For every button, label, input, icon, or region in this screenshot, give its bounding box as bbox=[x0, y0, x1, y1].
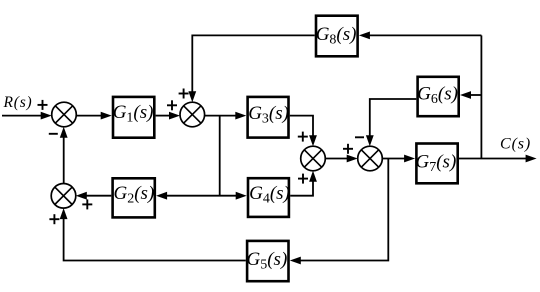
block G8 bbox=[316, 16, 358, 57]
svg-text:C(s): C(s) bbox=[500, 136, 531, 153]
minus sign at S4 top input bbox=[355, 136, 364, 138]
block G7 bbox=[416, 144, 458, 184]
svg-text:G3(s): G3(s) bbox=[248, 103, 289, 127]
block G2 bbox=[113, 178, 155, 217]
block G1 bbox=[113, 97, 155, 138]
svg-text:G4(s): G4(s) bbox=[249, 183, 290, 207]
wire S4 to G7 with branch node bbox=[382, 158, 407, 160]
wire feedback vertical from output node up bbox=[480, 35, 482, 158]
wire G3 output to summer S3 top bbox=[290, 116, 313, 138]
summing junction S4 bbox=[358, 146, 383, 171]
wire G1 to summer S2 bbox=[156, 115, 171, 117]
block G6 bbox=[417, 77, 459, 116]
svg-text:G1(s): G1(s) bbox=[113, 102, 154, 126]
summing junction S5 bbox=[51, 184, 76, 209]
wire branch down to G5 bbox=[298, 159, 389, 261]
wire G5 output to S5 bottom bbox=[64, 217, 246, 261]
plus sign at S1 input bbox=[38, 100, 48, 110]
summing junction S1 bbox=[52, 102, 77, 127]
plus sign at S3 bottom input bbox=[298, 174, 308, 184]
block G3 bbox=[248, 97, 289, 138]
wire branch row to G2 (left) and G4 (right) bbox=[164, 195, 239, 197]
plus sign at S2 top input bbox=[179, 89, 189, 99]
block G5 bbox=[247, 241, 289, 281]
wire S5 output up to S1 lower input bbox=[63, 135, 65, 184]
summing junction S3 bbox=[301, 146, 326, 171]
wire S3 to S4 bbox=[325, 158, 349, 160]
wire G7 to C(s) output bbox=[459, 158, 528, 160]
minus sign at S1 lower input bbox=[49, 133, 58, 135]
plus sign at S2 left input bbox=[167, 100, 177, 110]
svg-text:R(s): R(s) bbox=[3, 94, 33, 111]
plus sign between S3 and S4 bbox=[343, 144, 353, 154]
wire G8 output to S2 top bbox=[192, 35, 314, 94]
wire to G6 input bbox=[469, 94, 482, 96]
block G4 bbox=[248, 178, 290, 217]
summing junction S2 bbox=[180, 102, 205, 127]
wire R(s) input to summer S1 bbox=[2, 115, 43, 117]
plus sign at S5 bottom input bbox=[49, 214, 59, 224]
plus sign at S5 right input bbox=[82, 199, 92, 209]
wire G2 output to summer S5 bbox=[85, 195, 112, 197]
wire S1 to G1 bbox=[76, 115, 103, 117]
svg-text:G2(s): G2(s) bbox=[114, 183, 155, 207]
svg-text:G6(s): G6(s) bbox=[417, 84, 458, 108]
svg-text:G8(s): G8(s) bbox=[316, 24, 357, 48]
wire G6 output to S4 top bbox=[370, 99, 417, 138]
wire branch down from node to G2/G4 row bbox=[219, 116, 221, 196]
wire G4 output to S3 bottom bbox=[290, 179, 313, 196]
wire to G8 input bbox=[367, 34, 481, 36]
svg-text:G5(s): G5(s) bbox=[247, 249, 288, 273]
wire S2 to G3 with branch node bbox=[205, 115, 238, 117]
svg-text:G7(s): G7(s) bbox=[416, 151, 457, 175]
plus sign at S3 top input bbox=[298, 132, 308, 142]
